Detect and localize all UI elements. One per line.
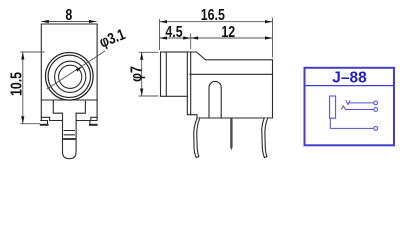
center stem: [63, 113, 77, 159]
side view: [161, 52, 273, 158]
barrel second circle: [48, 55, 90, 97]
dimension 10.5: [20, 52, 44, 124]
dimension 16.5: [160, 18, 273, 58]
svg-text:J–88: J–88: [332, 69, 367, 86]
title divider: [304, 85, 396, 87]
svg-text:φ7: φ7: [127, 66, 145, 82]
left foot: [41, 121, 48, 126]
svg-text:10.5: 10.5: [7, 72, 25, 96]
hole circle phi3.1: [59, 65, 82, 88]
svg-text:4.5: 4.5: [165, 23, 182, 41]
base bottom line: [50, 120, 91, 122]
front view body: [41, 24, 97, 121]
dimension 8: [41, 21, 96, 23]
leader phi3.1: [47, 51, 105, 89]
body front wall: [190, 53, 192, 115]
svg-text:12: 12: [221, 23, 235, 41]
barrel step line: [165, 52, 167, 96]
body outline: [187, 52, 272, 118]
base T cutout: [53, 100, 85, 113]
svg-text:8: 8: [65, 5, 72, 23]
right bent pin: [262, 118, 268, 158]
barrel rect: [161, 52, 188, 96]
body interior line: [190, 73, 273, 75]
symbol box: [304, 68, 396, 146]
middle pin: [230, 118, 232, 150]
dimension phi7: [139, 52, 159, 96]
svg-text:16.5: 16.5: [201, 6, 225, 24]
stem inner lines: [64, 131, 74, 135]
jack schematic: [330, 96, 378, 130]
bushing ring circle: [55, 61, 86, 92]
base top line: [41, 99, 97, 101]
U slot: [209, 81, 221, 118]
left bent pin: [194, 118, 200, 158]
base shelf steps: [41, 117, 97, 120]
right foot: [90, 121, 97, 126]
barrel outer circle: [46, 53, 94, 101]
dimension 4.5 / 12: [160, 37, 273, 39]
